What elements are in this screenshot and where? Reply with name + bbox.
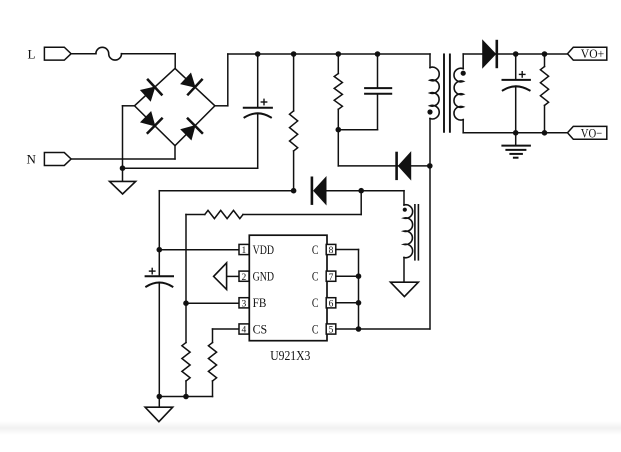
svg-text:4: 4 xyxy=(242,326,247,336)
svg-text:C: C xyxy=(312,269,319,284)
svg-text:L: L xyxy=(28,46,36,61)
svg-text:VO+: VO+ xyxy=(581,46,604,61)
svg-text:GND: GND xyxy=(253,269,274,284)
svg-text:VO−: VO− xyxy=(581,125,603,140)
svg-text:1: 1 xyxy=(242,246,247,256)
svg-text:C: C xyxy=(312,242,319,257)
svg-text:FB: FB xyxy=(253,295,267,310)
svg-text:C: C xyxy=(312,321,319,336)
svg-text:U921X3: U921X3 xyxy=(270,348,311,363)
svg-text:2: 2 xyxy=(242,273,247,283)
svg-text:VDD: VDD xyxy=(253,242,274,257)
svg-text:N: N xyxy=(27,152,37,167)
svg-text:C: C xyxy=(312,295,319,310)
svg-text:7: 7 xyxy=(329,273,334,283)
svg-text:5: 5 xyxy=(329,326,334,336)
svg-text:8: 8 xyxy=(329,246,334,256)
svg-text:3: 3 xyxy=(242,299,247,309)
svg-text:6: 6 xyxy=(329,299,334,309)
svg-text:CS: CS xyxy=(253,321,268,336)
